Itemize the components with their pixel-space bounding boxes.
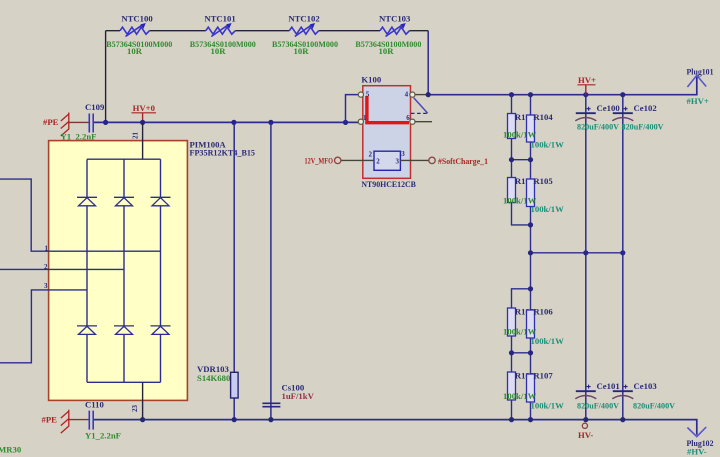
wire: HV- bottom bus — [94, 420, 697, 435]
svg-text:820uF/400V: 820uF/400V — [633, 400, 676, 410]
pin circle 4 — [410, 92, 415, 97]
varistor VDR103 body — [231, 372, 239, 398]
net label HV+0 — [132, 103, 157, 122]
wire: midpoint to capacitor midpoints — [531, 252, 623, 254]
capacitor Ce102 — [612, 103, 664, 131]
plug Plug102 arrow — [687, 427, 706, 437]
resistor R103 — [508, 372, 516, 400]
wire: capacitor column Ce100/Ce101 — [585, 95, 587, 420]
plug Plug101 arrow — [687, 75, 706, 87]
svg-text:3: 3 — [396, 157, 400, 165]
capacitor Ce103 — [612, 381, 675, 410]
resistor R102 — [508, 308, 516, 336]
terminal circle SoftCharge — [429, 157, 435, 163]
wire: chain right drop to HV+ bus — [427, 31, 429, 95]
wire: NTC chain top segments — [106, 30, 429, 32]
wire: pin6 stub — [415, 121, 432, 123]
svg-text:#HV-: #HV- — [687, 446, 707, 456]
wire: left resistor rail upper — [512, 95, 531, 225]
resistor R105 — [527, 179, 535, 207]
diode D2 top row col2 — [114, 197, 134, 206]
diode D4 bottom row col1 — [77, 326, 97, 335]
svg-text:100k/1W: 100k/1W — [503, 129, 537, 139]
wire: capacitor column Ce102/Ce103 — [622, 95, 624, 420]
resistor R106 — [527, 310, 535, 338]
relay contact blade — [414, 98, 428, 114]
relay K100 body — [363, 86, 411, 179]
wire: HV+0 mid bus — [94, 121, 360, 123]
varistor VDR103 wire — [233, 122, 235, 419]
capacitor Cs100 plates — [262, 403, 280, 406]
svg-text:2: 2 — [376, 157, 380, 165]
diode D3 top row col3 — [151, 197, 171, 206]
svg-text:820uF/400V: 820uF/400V — [622, 121, 665, 131]
pin 23 bottom pin wire — [142, 382, 144, 419]
wire: PE stub to C109 — [69, 121, 89, 123]
wire: divider connector 1 — [512, 159, 531, 161]
svg-text:100k/1W: 100k/1W — [503, 391, 537, 401]
svg-text:R107: R107 — [533, 371, 553, 381]
wire: top bus inside block — [87, 158, 161, 160]
wire: pin4 to bus — [415, 94, 428, 96]
resistor R101 — [508, 178, 516, 203]
svg-text:Ce101: Ce101 — [597, 381, 620, 391]
svg-text:NTC101: NTC101 — [204, 13, 235, 23]
svg-text:1uF/1kV: 1uF/1kV — [282, 391, 315, 401]
svg-text:10R: 10R — [379, 46, 395, 56]
svg-text:Y1_2.2nF: Y1_2.2nF — [85, 431, 121, 441]
wire: column 2 — [123, 159, 125, 382]
wire: column 1 — [86, 159, 88, 382]
wire: K100 pin5 branch — [346, 95, 359, 123]
pin 21 top pin wire — [142, 122, 144, 159]
junction dots on HV+ bus — [426, 92, 626, 97]
capacitor Ce101 — [575, 381, 619, 410]
junction dots on mid bus — [103, 120, 348, 125]
wire: HV+ top bus — [428, 77, 697, 95]
svg-text:820uF/400V: 820uF/400V — [577, 121, 620, 131]
svg-text:#PE: #PE — [42, 414, 58, 424]
relay linkage dashed line — [411, 112, 428, 114]
thermistor NTC100 — [106, 13, 173, 56]
svg-text:2: 2 — [44, 263, 48, 271]
svg-text:2: 2 — [369, 151, 373, 159]
svg-text:3: 3 — [44, 282, 48, 290]
thermistor NTC101 — [190, 13, 257, 56]
terminal circle HV- — [582, 423, 587, 428]
svg-text:1: 1 — [363, 114, 367, 122]
capacitor C110 — [85, 400, 121, 441]
svg-text:HV+: HV+ — [578, 75, 596, 85]
svg-text:R105: R105 — [533, 176, 553, 186]
wire: phase 3 input — [0, 290, 87, 363]
capacitor Ce100 — [575, 103, 620, 131]
svg-text:MR30: MR30 — [0, 445, 22, 455]
svg-text:S14K680: S14K680 — [197, 373, 231, 383]
svg-text:FP35R12KT4_B15: FP35R12KT4_B15 — [190, 148, 256, 158]
resistor R100 — [508, 114, 516, 139]
capacitor Cs100 wire — [270, 122, 272, 419]
svg-text:Plug101: Plug101 — [687, 67, 714, 77]
wire: coil right — [400, 159, 428, 161]
svg-text:4: 4 — [405, 91, 409, 99]
diode D1 top row col1 — [77, 197, 97, 206]
wire: phase 1 input — [0, 179, 161, 251]
wire: bottom bus inside block — [87, 381, 161, 383]
diode D5 bottom row col2 — [114, 326, 134, 335]
capacitor C109 — [61, 102, 105, 142]
svg-text:10R: 10R — [211, 46, 227, 56]
junction dots resistor network — [509, 157, 626, 355]
svg-text:#HV+: #HV+ — [687, 96, 709, 106]
svg-text:NTC102: NTC102 — [288, 13, 319, 23]
resistor R104 — [527, 115, 535, 142]
svg-text:R106: R106 — [533, 306, 553, 316]
svg-text:C109: C109 — [85, 102, 105, 112]
svg-text:C110: C110 — [85, 400, 104, 410]
svg-text:Ce102: Ce102 — [634, 103, 657, 113]
terminal circle 12V_MFO — [335, 157, 341, 163]
PE symbol bottom — [61, 410, 69, 434]
pin circle 5 — [358, 92, 363, 97]
net label HV+ — [578, 75, 597, 95]
pin circle 6 — [410, 119, 415, 124]
thermistor NTC103 — [355, 13, 422, 56]
diode D6 bottom row col3 — [151, 326, 171, 335]
resistor R107 — [527, 374, 535, 402]
wire: right resistor rail — [530, 95, 532, 420]
svg-text:100k/1W: 100k/1W — [531, 401, 565, 411]
wire: coil left — [341, 159, 374, 161]
svg-text:Ce103: Ce103 — [634, 381, 658, 391]
svg-text:100k/1W: 100k/1W — [531, 140, 565, 150]
wire: PE stub to C110 — [69, 419, 89, 421]
svg-text:21: 21 — [132, 132, 140, 140]
rectifier module PIM100A block — [49, 141, 188, 401]
svg-text:6: 6 — [406, 114, 410, 122]
svg-text:100k/1W: 100k/1W — [531, 336, 565, 346]
svg-text:#PE: #PE — [43, 117, 59, 127]
svg-text:5: 5 — [366, 91, 370, 99]
wire: column 3 — [160, 159, 162, 382]
svg-text:R104: R104 — [533, 112, 553, 122]
svg-text:HV-: HV- — [578, 430, 593, 440]
svg-text:NTC103: NTC103 — [379, 13, 411, 23]
svg-text:12V_MFO: 12V_MFO — [305, 156, 334, 166]
svg-text:10R: 10R — [294, 46, 310, 56]
svg-text:820uF/400V: 820uF/400V — [577, 400, 620, 410]
svg-text:1: 1 — [45, 244, 49, 252]
thermistor NTC102 — [272, 13, 339, 56]
svg-text:#SoftCharge_1: #SoftCharge_1 — [438, 156, 488, 166]
pin circle 1 — [358, 119, 363, 124]
PE symbol top — [61, 113, 69, 137]
svg-text:Ce100: Ce100 — [597, 103, 621, 113]
relay coil box — [374, 151, 400, 170]
svg-text:K100: K100 — [361, 75, 381, 85]
wire: chain left drop to HV+0 bus — [105, 31, 107, 123]
svg-text:HV+0: HV+0 — [133, 103, 156, 113]
svg-text:3: 3 — [401, 150, 405, 158]
junction dots on bottom bus — [140, 417, 625, 422]
svg-text:NTC100: NTC100 — [121, 13, 153, 23]
svg-text:23: 23 — [131, 405, 139, 413]
svg-text:10R: 10R — [127, 46, 143, 56]
wire: left resistor rail lower — [512, 289, 531, 420]
wire: divider connector 2 — [512, 352, 531, 354]
wire: phase 2 input — [0, 268, 124, 270]
relay K100 red closed net — [367, 96, 409, 123]
svg-text:NT90HCE12CB: NT90HCE12CB — [361, 179, 416, 189]
svg-text:100k/1W: 100k/1W — [531, 204, 565, 214]
svg-text:100k/1W: 100k/1W — [503, 327, 537, 337]
